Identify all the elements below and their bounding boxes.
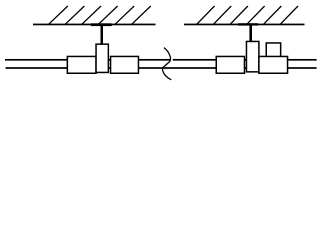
pipe break squiggle (163, 48, 172, 80)
ceiling plate left (91, 23, 112, 26)
ceiling line right (184, 24, 305, 26)
ceiling hatching right (197, 6, 298, 24)
coupling block R1 (216, 56, 244, 73)
coupling block L1 (67, 56, 96, 73)
coupling block R2 (259, 56, 288, 73)
small box on block R2 (266, 43, 280, 57)
hanger rod left (101, 25, 104, 45)
ceiling line left (33, 24, 156, 26)
pipe lower line (6, 67, 317, 69)
pipe clamp left (96, 44, 108, 72)
gap in upper pipe line at break (170, 59, 172, 62)
coupling block L2 (111, 56, 139, 73)
ceiling hatching left (49, 6, 151, 24)
ceiling plate right (238, 23, 258, 25)
pipe upper line (5, 59, 317, 61)
hanger rod right (249, 25, 252, 42)
pipe clamp right (246, 41, 258, 71)
